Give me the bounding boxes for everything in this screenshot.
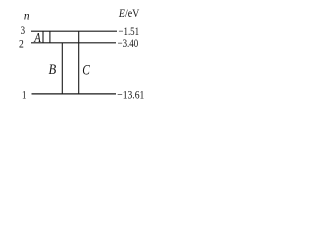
svg-text:2: 2 bbox=[19, 37, 24, 50]
axis label n bbox=[24, 9, 30, 22]
svg-text:C: C bbox=[82, 61, 90, 78]
svg-text:1: 1 bbox=[22, 89, 26, 102]
axis label E/eV bbox=[118, 7, 139, 20]
transition C line (n=3 to n=1) bbox=[78, 31, 80, 94]
level n=1 line bbox=[32, 93, 117, 95]
transition A line 1 (n=3 to n=2) bbox=[42, 31, 44, 43]
level n=2 energy -3.40 bbox=[118, 38, 139, 51]
level n=3 line bbox=[31, 30, 117, 32]
svg-text:−13.61: −13.61 bbox=[117, 88, 144, 101]
level n=3 energy -1.51 bbox=[119, 26, 140, 39]
level n=1 energy -13.61 bbox=[117, 88, 144, 101]
transition B line (n=2 to n=1) bbox=[61, 43, 63, 94]
svg-text:E/eV: E/eV bbox=[118, 7, 139, 20]
transition A label bbox=[33, 30, 41, 46]
level n=2 line bbox=[31, 42, 116, 44]
level n=1 label 1 bbox=[22, 89, 26, 102]
svg-text:A: A bbox=[33, 30, 41, 46]
svg-text:−1.51: −1.51 bbox=[119, 26, 140, 39]
transition B label bbox=[49, 61, 57, 77]
svg-text:−3.40: −3.40 bbox=[118, 38, 139, 51]
transition A line 2 (n=3 to n=2) bbox=[49, 31, 51, 43]
level n=3 label 3 bbox=[21, 25, 25, 38]
level n=2 label 2 bbox=[19, 37, 24, 50]
svg-text:n: n bbox=[24, 9, 30, 22]
svg-text:B: B bbox=[49, 61, 57, 77]
svg-text:3: 3 bbox=[21, 25, 25, 38]
transition C label bbox=[82, 61, 90, 78]
